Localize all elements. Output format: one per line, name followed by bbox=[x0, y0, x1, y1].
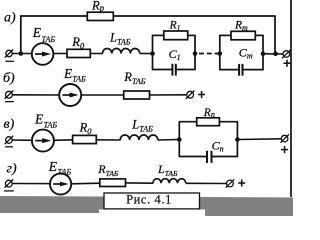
terminal input g bbox=[4, 179, 14, 191]
plus b bbox=[198, 91, 205, 98]
node a6 bbox=[273, 52, 278, 57]
terminal input b bbox=[5, 91, 14, 102]
wire v4 bbox=[158, 139, 180, 142]
capacitor Cp(pi) v bbox=[206, 151, 208, 163]
node a3 bbox=[193, 51, 198, 56]
svg-text:E: E bbox=[48, 159, 58, 174]
plus v bbox=[281, 146, 288, 153]
tank1 frame bbox=[152, 35, 196, 69]
wire b2 bbox=[81, 94, 124, 96]
plus a bbox=[284, 60, 291, 67]
caption box bbox=[104, 193, 200, 209]
svg-text:ТАБ: ТАБ bbox=[72, 74, 86, 83]
wire a3 bbox=[90, 53, 103, 55]
node a1 bbox=[19, 51, 24, 56]
svg-text:б): б) bbox=[3, 71, 15, 86]
terminal input v bbox=[5, 136, 14, 147]
svg-text:а): а) bbox=[4, 11, 16, 26]
resistor Rp bbox=[87, 12, 113, 20]
inductor L_TAB a bbox=[103, 49, 140, 54]
wire g2 bbox=[71, 182, 100, 185]
wire v1 bbox=[12, 139, 32, 141]
source E_TAB v bbox=[32, 111, 58, 151]
terminal output g bbox=[226, 179, 235, 187]
svg-text:E: E bbox=[32, 25, 42, 40]
terminal output b bbox=[186, 91, 195, 99]
tank v frame bbox=[179, 122, 239, 157]
svg-text:ТАБ: ТАБ bbox=[58, 168, 72, 177]
wire a2 bbox=[53, 53, 67, 55]
source E_TAB g bbox=[48, 159, 72, 195]
tank2 frame bbox=[219, 35, 264, 69]
inductor L_TAB v bbox=[120, 135, 158, 140]
svg-text:ТАБ: ТАБ bbox=[42, 35, 56, 44]
svg-text:E: E bbox=[34, 111, 44, 126]
wire v5 bbox=[237, 138, 281, 141]
wire b3 bbox=[150, 94, 187, 96]
wire top right a bbox=[113, 15, 275, 17]
wire g3 bbox=[126, 182, 154, 184]
resistor R_TAB g bbox=[100, 179, 126, 187]
svg-text:в): в) bbox=[4, 117, 15, 132]
svg-text:г): г) bbox=[7, 162, 17, 177]
node v1 bbox=[177, 137, 182, 142]
node a5 bbox=[261, 52, 266, 57]
svg-text:Рис. 4.1: Рис. 4.1 bbox=[126, 193, 172, 207]
source E_TAB b bbox=[59, 66, 86, 106]
resistor Rm bbox=[231, 31, 255, 40]
node v2 bbox=[235, 137, 240, 142]
wire a4 bbox=[140, 53, 153, 55]
wire a5 bbox=[263, 53, 283, 55]
grey band bottom bbox=[0, 196, 293, 216]
plus g bbox=[238, 180, 245, 187]
terminal input a bbox=[5, 49, 14, 61]
terminal output v bbox=[280, 134, 289, 142]
wire v3 bbox=[96, 139, 120, 141]
wire top left a bbox=[20, 15, 87, 17]
wire b1 bbox=[12, 94, 59, 96]
resistor R0 a bbox=[67, 49, 90, 57]
wire riser right a bbox=[274, 16, 276, 54]
wire g1 bbox=[12, 183, 50, 185]
resistor R0 v bbox=[73, 135, 97, 143]
node a2 bbox=[150, 51, 155, 56]
resistor Rp(pi) v bbox=[197, 118, 220, 126]
resistor R1 bbox=[164, 31, 188, 40]
resistor R_TAB b bbox=[124, 91, 150, 99]
capacitor C1 bbox=[171, 64, 173, 76]
svg-text:ТАБ: ТАБ bbox=[44, 121, 58, 130]
wire dashed a bbox=[199, 53, 220, 55]
capacitor Cm bbox=[238, 64, 240, 76]
inductor L_TAB g bbox=[153, 179, 186, 184]
wire a input bbox=[12, 53, 31, 55]
node a4 bbox=[218, 51, 223, 56]
source E_TAB a bbox=[32, 25, 56, 65]
terminal output a bbox=[282, 50, 291, 58]
right page border bbox=[290, 0, 292, 197]
wire g4 bbox=[186, 182, 226, 184]
wire v2 bbox=[54, 139, 73, 142]
wire riser left a bbox=[20, 16, 22, 54]
